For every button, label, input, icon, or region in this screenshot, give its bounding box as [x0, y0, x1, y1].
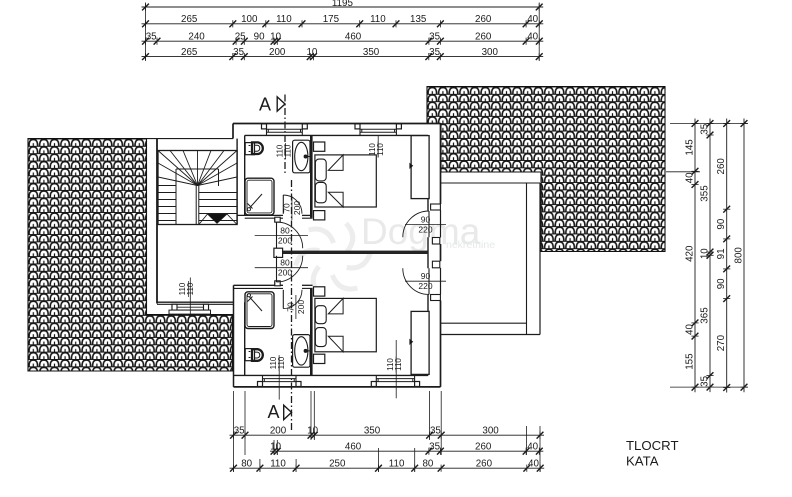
stairs direction arrow [208, 214, 228, 223]
svg-text:260: 260 [476, 458, 493, 469]
svg-text:10: 10 [270, 31, 281, 42]
right dimension col 4 800 [743, 119, 745, 393]
svg-text:270: 270 [716, 334, 727, 351]
svg-text:KATA: KATA [626, 453, 659, 468]
door D3 70/200 bathroom1 [282, 195, 284, 214]
svg-text:A: A [259, 95, 271, 115]
door D5 90/220 upper right [428, 211, 430, 237]
label door D2 [255, 267, 308, 269]
door80 lower jamb stub [274, 281, 276, 285]
svg-text:35: 35 [233, 47, 244, 58]
wardrobe WR2 [411, 311, 429, 374]
hall (annex) west wall [156, 139, 158, 304]
east exterior wall [427, 135, 429, 210]
svg-text:110: 110 [389, 458, 405, 469]
svg-text:220: 220 [418, 225, 432, 235]
svg-text:265: 265 [181, 47, 198, 58]
svg-text:200: 200 [278, 236, 292, 246]
svg-text:35: 35 [700, 375, 711, 386]
svg-text:110: 110 [376, 143, 385, 156]
svg-text:40: 40 [527, 441, 538, 452]
svg-text:TLOCRT: TLOCRT [626, 438, 679, 453]
svg-text:80: 80 [280, 258, 290, 268]
stairs treads right [199, 192, 237, 194]
svg-text:80: 80 [422, 458, 433, 469]
bottom extension lines [233, 391, 235, 472]
top dimension row 4 [142, 56, 544, 58]
west wall lower [233, 285, 235, 387]
roof edge extension line [666, 171, 700, 173]
svg-text:250: 250 [329, 458, 346, 469]
svg-text:460: 460 [345, 441, 362, 452]
stairs winder fan [158, 177, 198, 186]
svg-text:10: 10 [270, 441, 281, 452]
svg-text:110: 110 [283, 144, 292, 157]
bottom dimension row B [270, 450, 543, 452]
svg-text:220: 220 [418, 281, 432, 291]
bathroom1 south wall [237, 214, 283, 216]
svg-text:35: 35 [700, 123, 711, 134]
right dimension col 3 [726, 119, 728, 393]
label door D4 70/200 rotated [295, 295, 297, 319]
stairs treads left [158, 185, 176, 187]
right dimension col 1 [694, 119, 696, 393]
svg-text:260: 260 [475, 441, 492, 452]
sink S1 [293, 140, 310, 173]
nightstand N1 [314, 142, 325, 151]
svg-text:10: 10 [306, 47, 317, 58]
svg-text:35: 35 [429, 441, 440, 452]
door D1 80/200 upper [276, 222, 278, 248]
svg-text:260: 260 [475, 14, 492, 25]
corridor wall [283, 251, 429, 254]
label door D3 70/200 rotated [291, 196, 293, 220]
svg-text:40: 40 [685, 172, 696, 183]
pillow [315, 328, 326, 347]
svg-text:200: 200 [269, 47, 286, 58]
svg-text:10: 10 [700, 248, 711, 259]
door D4 70/200 bathroom2 [282, 290, 284, 309]
svg-text:200: 200 [270, 425, 287, 436]
pillow [315, 306, 326, 324]
window3 center line [278, 358, 280, 400]
partition bathroom2/bedroom2 [310, 288, 313, 375]
svg-text:110: 110 [277, 356, 286, 369]
section line bottom [291, 180, 293, 430]
hall south wall [157, 301, 234, 303]
watermark logo [296, 223, 371, 294]
bottom exterior wall [234, 374, 429, 376]
terrace parapet right [526, 183, 528, 335]
svg-text:265: 265 [181, 14, 198, 25]
svg-text:1195: 1195 [332, 0, 354, 9]
blanket fold [328, 155, 343, 171]
section flag top [277, 97, 285, 111]
svg-text:355: 355 [700, 185, 711, 202]
svg-text:100: 100 [241, 14, 258, 25]
nightstand N4 [314, 354, 325, 363]
svg-text:365: 365 [700, 307, 711, 324]
bathroom2 north wall [234, 284, 284, 286]
svg-text:40: 40 [527, 31, 538, 42]
svg-text:40: 40 [527, 14, 538, 25]
svg-text:800: 800 [734, 247, 745, 264]
window4 center line [395, 340, 397, 398]
svg-text:35: 35 [146, 31, 157, 42]
svg-text:35: 35 [429, 31, 440, 42]
svg-text:70: 70 [282, 203, 292, 213]
section line top [284, 95, 286, 174]
svg-text:40: 40 [528, 458, 539, 469]
svg-text:80: 80 [241, 458, 252, 469]
window5 center line [189, 278, 191, 315]
left roof hatch [28, 139, 233, 372]
terrace parapet bottom [441, 322, 527, 324]
wardrobe WR1 [411, 136, 429, 199]
west wall upper (corner stub + roofline) [232, 124, 234, 139]
terrace top edge [441, 182, 540, 184]
pillow [315, 159, 326, 181]
label door D1 [255, 235, 308, 237]
door D2 80/200 lower [276, 256, 278, 282]
svg-text:90: 90 [421, 271, 431, 281]
top dimension row 1195 [142, 6, 544, 8]
svg-text:35: 35 [234, 425, 245, 436]
svg-text:35: 35 [430, 425, 441, 436]
window2 center line [377, 135, 379, 157]
stairs outer [158, 151, 237, 225]
window W4 bottom-right 110 [371, 382, 376, 387]
shower SH2 [245, 292, 274, 329]
svg-text:70: 70 [286, 302, 296, 312]
top dimension row 3 [142, 40, 544, 42]
svg-text:300: 300 [482, 425, 499, 436]
label door D5 [405, 224, 446, 226]
svg-text:90: 90 [716, 218, 727, 229]
svg-text:10: 10 [307, 425, 318, 436]
top dimension row 2 [142, 23, 544, 25]
blanket fold [328, 298, 343, 314]
svg-text:420: 420 [685, 245, 696, 262]
nightstand N2 [314, 211, 325, 220]
svg-text:175: 175 [323, 14, 340, 25]
svg-text:110: 110 [186, 282, 195, 295]
window W2 top-right 110 [355, 124, 360, 129]
svg-text:145: 145 [685, 139, 696, 156]
svg-text:240: 240 [188, 31, 205, 42]
right block extension lines [670, 123, 748, 125]
svg-text:110: 110 [370, 14, 386, 25]
svg-text:25: 25 [235, 31, 246, 42]
svg-text:460: 460 [345, 31, 362, 42]
right roof hatch [427, 87, 665, 252]
stairs center rail [195, 186, 197, 225]
svg-text:80: 80 [280, 225, 290, 235]
corridor wall left jamb [274, 248, 283, 257]
svg-text:110: 110 [394, 358, 403, 371]
svg-text:200: 200 [292, 201, 302, 215]
bed B2 [315, 298, 376, 351]
svg-text:155: 155 [685, 353, 696, 370]
window W5 hall 110 [172, 304, 209, 310]
svg-text:91: 91 [716, 248, 727, 259]
svg-text:300: 300 [482, 47, 499, 58]
stairwell inner rect [175, 169, 177, 225]
svg-text:200: 200 [296, 300, 306, 314]
pillow [315, 182, 326, 202]
svg-text:nekretnine: nekretnine [446, 239, 495, 251]
door80 upper jamb stub [274, 218, 276, 222]
nightstand N3 [314, 287, 325, 296]
section flag bottom [284, 405, 292, 419]
svg-text:A: A [267, 402, 279, 422]
svg-text:40: 40 [685, 324, 696, 335]
top exterior wall [233, 123, 441, 125]
bottom dimension row A [230, 434, 545, 436]
svg-text:35: 35 [429, 47, 440, 58]
window W3 bottom-left 110 [258, 382, 263, 387]
svg-text:350: 350 [364, 425, 381, 436]
sink S2 [293, 335, 310, 368]
toilet WC1 [245, 143, 254, 155]
shower SH1 [245, 178, 274, 215]
east wall jambs [431, 204, 441, 210]
svg-text:350: 350 [363, 47, 380, 58]
partition bathroom1/bedroom1 [310, 135, 313, 217]
svg-text:90: 90 [254, 31, 265, 42]
svg-text:90: 90 [716, 278, 727, 289]
svg-text:90: 90 [421, 214, 431, 224]
svg-text:110: 110 [270, 458, 286, 469]
top block end extension lines [145, 3, 147, 62]
svg-text:135: 135 [410, 14, 427, 25]
bed B1 [315, 155, 376, 207]
svg-text:110: 110 [276, 14, 292, 25]
toilet WC2 [245, 349, 254, 361]
window W1 top-left 110 [262, 124, 267, 129]
svg-text:260: 260 [475, 31, 492, 42]
svg-text:200: 200 [278, 268, 292, 278]
door D6 90/220 lower right [428, 268, 430, 294]
right dimension col 2 [709, 119, 711, 393]
bottom dimension row C [230, 467, 545, 469]
label door D6 [405, 280, 446, 282]
svg-text:260: 260 [716, 158, 727, 175]
